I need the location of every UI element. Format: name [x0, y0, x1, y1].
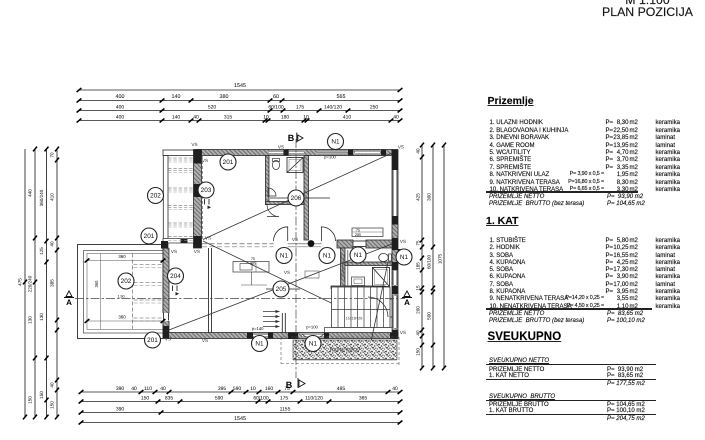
- svg-text:N1: N1: [323, 253, 332, 260]
- svg-text:390: 390: [116, 406, 125, 412]
- svg-text:440: 440: [28, 189, 33, 197]
- svg-text:VS: VS: [191, 142, 197, 147]
- svg-text:p=100: p=100: [324, 155, 336, 160]
- svg-text:400: 400: [116, 94, 125, 100]
- svg-text:125: 125: [39, 247, 44, 255]
- svg-text:VS: VS: [292, 237, 298, 242]
- svg-text:205: 205: [276, 286, 287, 293]
- svg-text:150: 150: [28, 396, 33, 404]
- svg-text:206: 206: [291, 195, 302, 202]
- svg-text:40: 40: [50, 382, 55, 388]
- svg-text:40: 40: [393, 114, 399, 120]
- svg-text:40: 40: [416, 330, 421, 336]
- svg-text:10: 10: [250, 386, 256, 392]
- svg-text:500: 500: [427, 312, 432, 320]
- svg-text:15x18=26: 15x18=26: [346, 317, 363, 321]
- svg-text:385: 385: [50, 279, 55, 287]
- svg-text:140: 140: [172, 114, 181, 120]
- svg-text:175: 175: [296, 104, 305, 110]
- svg-text:360: 360: [94, 280, 99, 288]
- svg-text:400: 400: [116, 114, 125, 120]
- svg-text:205: 205: [355, 233, 361, 237]
- svg-text:VS: VS: [202, 338, 208, 343]
- svg-text:1,50: 1,50: [118, 295, 125, 299]
- svg-text:475: 475: [18, 278, 23, 286]
- svg-text:130: 130: [28, 316, 33, 324]
- svg-text:150: 150: [141, 395, 150, 401]
- svg-text:201: 201: [144, 233, 155, 240]
- svg-text:300: 300: [427, 193, 432, 201]
- svg-text:60/100: 60/100: [253, 395, 269, 401]
- svg-text:N1: N1: [280, 253, 289, 260]
- svg-text:VS: VS: [284, 270, 290, 275]
- svg-text:40: 40: [392, 386, 398, 392]
- svg-text:390: 390: [116, 386, 125, 392]
- svg-text:590: 590: [233, 386, 242, 392]
- svg-text:60/100: 60/100: [268, 104, 284, 110]
- svg-text:175: 175: [280, 395, 289, 401]
- svg-text:360: 360: [118, 254, 126, 259]
- svg-text:40: 40: [131, 386, 137, 392]
- svg-text:360/240: 360/240: [39, 189, 44, 206]
- svg-text:202: 202: [121, 278, 132, 285]
- svg-text:B: B: [288, 133, 295, 143]
- svg-text:150: 150: [39, 391, 44, 399]
- svg-text:201: 201: [223, 159, 234, 166]
- svg-text:520: 520: [208, 104, 217, 110]
- svg-text:1075: 1075: [438, 253, 443, 264]
- svg-text:p=140: p=140: [252, 326, 264, 331]
- svg-text:202: 202: [150, 193, 161, 200]
- svg-text:40: 40: [160, 386, 166, 392]
- svg-text:200: 200: [416, 306, 421, 314]
- svg-text:590: 590: [215, 395, 224, 401]
- svg-text:204: 204: [170, 273, 181, 280]
- svg-text:15: 15: [416, 285, 421, 291]
- svg-text:185: 185: [416, 262, 421, 270]
- svg-text:VS: VS: [205, 236, 211, 241]
- svg-text:1155: 1155: [280, 406, 291, 412]
- svg-text:VS: VS: [400, 239, 406, 244]
- svg-text:1545: 1545: [234, 416, 246, 422]
- svg-text:160: 160: [265, 386, 274, 392]
- svg-text:110/120: 110/120: [305, 395, 323, 401]
- svg-text:315: 315: [224, 114, 233, 120]
- svg-text:485: 485: [337, 386, 346, 392]
- svg-text:150: 150: [416, 348, 421, 356]
- svg-text:VS: VS: [278, 145, 284, 150]
- svg-text:VS: VS: [202, 158, 208, 163]
- svg-text:425: 425: [416, 193, 421, 201]
- svg-text:205: 205: [250, 262, 256, 266]
- svg-text:60/100: 60/100: [427, 255, 432, 269]
- svg-text:RAVNI KROV: RAVNI KROV: [330, 348, 361, 354]
- svg-text:10: 10: [263, 114, 269, 120]
- svg-text:140/120: 140/120: [324, 104, 342, 110]
- svg-text:40: 40: [416, 148, 421, 154]
- svg-text:365: 365: [359, 395, 368, 401]
- svg-text:VS: VS: [171, 249, 177, 254]
- svg-text:395: 395: [218, 386, 227, 392]
- svg-text:10: 10: [303, 114, 309, 120]
- svg-text:140: 140: [172, 94, 181, 100]
- svg-text:380: 380: [220, 94, 229, 100]
- svg-text:1545: 1545: [234, 83, 246, 89]
- svg-text:A: A: [66, 298, 72, 307]
- svg-text:N1: N1: [309, 341, 318, 348]
- svg-text:A: A: [404, 298, 410, 307]
- svg-text:150: 150: [50, 401, 55, 409]
- svg-text:75: 75: [251, 257, 255, 261]
- svg-text:835: 835: [165, 395, 174, 401]
- svg-text:203: 203: [201, 187, 212, 194]
- svg-text:130: 130: [39, 313, 44, 321]
- svg-text:VS: VS: [400, 330, 406, 335]
- svg-text:70: 70: [50, 152, 55, 158]
- svg-text:N1: N1: [255, 341, 264, 348]
- svg-text:VS: VS: [194, 249, 200, 254]
- svg-text:40: 40: [193, 114, 199, 120]
- svg-text:p=100: p=100: [306, 325, 318, 330]
- svg-text:B: B: [286, 380, 293, 390]
- svg-text:75: 75: [416, 240, 421, 246]
- svg-text:N1: N1: [354, 252, 363, 259]
- svg-text:400: 400: [116, 104, 125, 110]
- svg-text:N1: N1: [400, 254, 409, 261]
- svg-text:N1: N1: [331, 139, 340, 146]
- svg-text:VS: VS: [398, 145, 404, 150]
- svg-text:75: 75: [356, 229, 360, 233]
- svg-text:410: 410: [50, 193, 55, 201]
- svg-text:220/240: 220/240: [28, 275, 33, 292]
- svg-text:40: 40: [50, 241, 55, 247]
- svg-text:565: 565: [337, 94, 346, 100]
- svg-text:360: 360: [118, 315, 126, 320]
- svg-text:410: 410: [343, 114, 352, 120]
- svg-text:180: 180: [281, 114, 290, 120]
- svg-text:VS: VS: [165, 337, 171, 342]
- svg-text:110: 110: [144, 386, 152, 392]
- svg-text:250: 250: [370, 104, 379, 110]
- svg-text:60: 60: [273, 94, 279, 100]
- svg-text:201: 201: [147, 337, 158, 344]
